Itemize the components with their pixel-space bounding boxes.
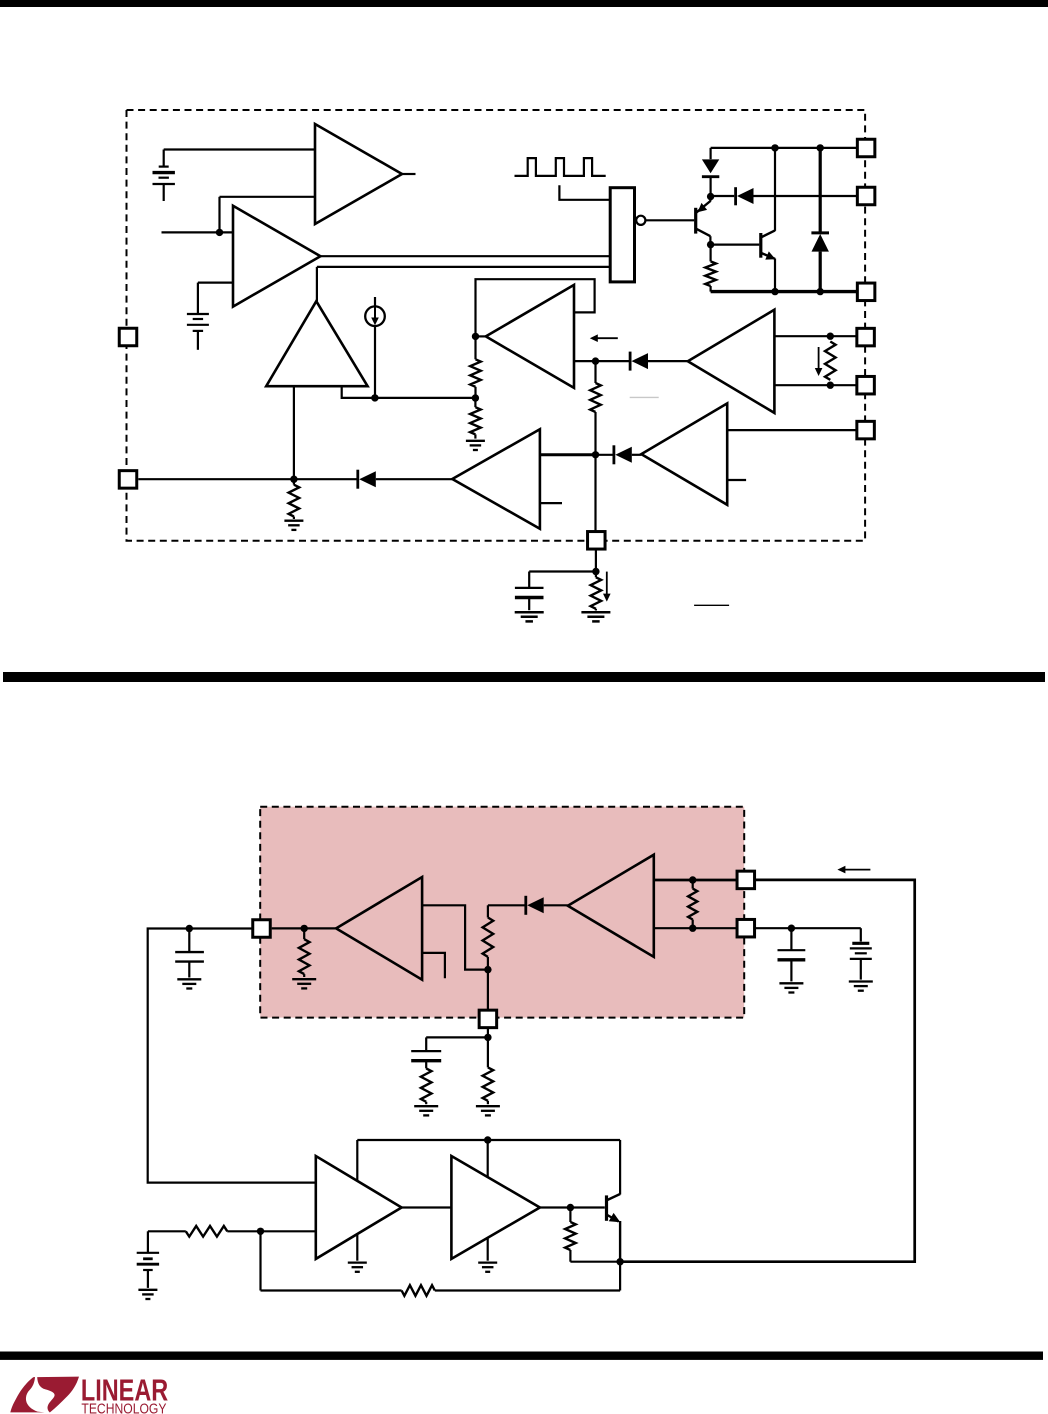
node C2 junction bbox=[186, 925, 193, 932]
ground under R12 bbox=[476, 1106, 500, 1115]
node bottom rail D3 bbox=[817, 288, 824, 295]
diode D6 bbox=[358, 470, 376, 489]
node feedback junction bbox=[257, 1228, 264, 1235]
wire output loop bold bbox=[620, 880, 915, 1262]
wire P13 down bbox=[487, 1028, 489, 1037]
battery B2 bbox=[187, 314, 209, 350]
wire left column bbox=[148, 929, 316, 1183]
resistor R4 bbox=[825, 342, 836, 380]
battery B4 bbox=[850, 928, 872, 979]
comparator A6 bbox=[486, 285, 574, 388]
wire A8 step input glyph bbox=[422, 953, 445, 978]
logo text TECHNOLOGY bbox=[81, 1402, 166, 1414]
transistor Q1 PNP bbox=[696, 201, 711, 245]
wire feedback down bbox=[259, 1231, 261, 1290]
IC boundary dashed box bbox=[127, 110, 866, 541]
node Q1 collector junction bbox=[707, 241, 714, 248]
wire A9 +input bbox=[654, 879, 737, 882]
battery B1 bbox=[153, 167, 175, 201]
wire A2 -input bbox=[198, 283, 233, 314]
ground A10 bbox=[348, 1263, 367, 1272]
wire feedback rail bbox=[261, 1262, 621, 1291]
pin square P11 right bbox=[737, 871, 755, 889]
wire A3 tap step bbox=[342, 386, 476, 398]
resistor R6 bbox=[289, 479, 300, 519]
node top rail Q2 bbox=[771, 144, 778, 151]
wire D7 to A9 bbox=[544, 904, 568, 906]
resistor R13 bbox=[186, 1226, 228, 1237]
comparator A8 bbox=[336, 877, 422, 980]
node bottom rail Q2 bbox=[771, 288, 778, 295]
node A8 input bbox=[301, 925, 308, 932]
pin square P10 left bbox=[253, 920, 271, 938]
wire A1 output bbox=[402, 173, 416, 175]
resistor R3 bbox=[470, 398, 481, 439]
op-amp A10 bbox=[316, 1156, 402, 1259]
wire A4 input bold bbox=[540, 453, 596, 456]
page top black bar bbox=[0, 0, 1048, 7]
resistor R12 bbox=[483, 1037, 494, 1104]
resistor R8 bbox=[299, 928, 310, 977]
node D4 junction bbox=[592, 357, 599, 364]
arrow annotation ISET bbox=[603, 572, 611, 602]
node tap junction bbox=[371, 394, 378, 401]
node osc top bbox=[484, 1136, 491, 1143]
wire R13 to A10 bbox=[227, 1230, 315, 1232]
node Q3 emitter bbox=[616, 1258, 623, 1265]
arrow annotation sense bbox=[815, 347, 823, 376]
resistor R9 bbox=[483, 905, 494, 969]
logo text LINEAR bbox=[81, 1372, 168, 1407]
pin square P7 right bbox=[857, 376, 875, 394]
diode D2 bbox=[736, 187, 754, 205]
op-amp A3 gm stage bbox=[266, 301, 367, 386]
capacitor C3 bbox=[778, 928, 806, 981]
transistor Q3 NPN bbox=[607, 1194, 621, 1262]
resistor R14 bbox=[402, 1285, 435, 1296]
capacitor C2 bbox=[175, 929, 204, 978]
node A7 +input bbox=[827, 333, 834, 340]
wire Q1 emitter up bbox=[709, 197, 711, 202]
resistor R1 bbox=[705, 245, 716, 292]
wire to C1 bbox=[529, 572, 596, 588]
node A9 +input bbox=[689, 876, 696, 883]
op-amp A2 error amp bbox=[233, 206, 320, 307]
wire Q2 collector up bbox=[774, 148, 776, 231]
pin square P4 right bbox=[857, 187, 875, 205]
oscillator pulse waveform bbox=[515, 158, 606, 176]
wire P12 row bbox=[755, 927, 861, 929]
wire R9 to D7 bbox=[488, 904, 526, 906]
page bottom black bar bbox=[0, 1352, 1043, 1360]
top rail bbox=[711, 147, 857, 149]
ground under R11 bbox=[414, 1106, 438, 1115]
wire A6 hysteresis loop bbox=[476, 279, 595, 336]
capacitor C4 bbox=[411, 1051, 441, 1068]
wire osc to U1 bbox=[559, 185, 610, 200]
ground under R6 bbox=[284, 521, 303, 530]
wire PB down bbox=[487, 970, 489, 1010]
ground A11 bbox=[478, 1263, 497, 1272]
wire A10 gnd stub bbox=[356, 1234, 358, 1261]
node A6 output bbox=[472, 333, 479, 340]
arrow annotation feedback bbox=[837, 866, 870, 874]
Linear Technology logo mark bbox=[10, 1377, 79, 1413]
svg-text:TECHNOLOGY: TECHNOLOGY bbox=[81, 1402, 166, 1414]
wire center rail bbox=[594, 361, 596, 531]
ground under B4 bbox=[849, 982, 873, 991]
node A8 fb junction bbox=[484, 966, 491, 973]
shaded application box bbox=[260, 807, 744, 1018]
ground under B3 bbox=[138, 1290, 157, 1299]
wire P10 to corner bbox=[189, 927, 252, 929]
node R2/R3 tap bbox=[472, 394, 479, 401]
wire U1 to Q1 base bbox=[646, 219, 695, 221]
resistor R11 bbox=[421, 1068, 432, 1104]
ground under R8 bbox=[292, 979, 316, 988]
diode D5 bbox=[614, 445, 632, 464]
ground under C1 bbox=[515, 612, 544, 621]
wire A3 base to node bbox=[293, 386, 295, 479]
resistor R5 bbox=[590, 383, 601, 412]
U1 output inverter bubble bbox=[636, 216, 645, 225]
resistor R15 bbox=[565, 1208, 576, 1262]
pin square P2 left bbox=[119, 471, 137, 489]
resistor R7 bbox=[591, 572, 602, 611]
current source I1 bbox=[365, 297, 385, 398]
bottom rail bold bbox=[711, 290, 857, 293]
node ISET junction bbox=[290, 476, 297, 483]
black overline label bbox=[694, 604, 729, 606]
capacitor C1 bbox=[515, 588, 544, 610]
pin square P13 bottom bbox=[479, 1010, 497, 1028]
pin square P1 left bbox=[119, 328, 137, 346]
wire A11 gnd stub bbox=[487, 1238, 489, 1261]
wire D2 anode bbox=[711, 195, 735, 197]
node top rail D3 bbox=[817, 144, 824, 151]
wire A8 input row bbox=[272, 927, 336, 929]
pin square P5 right bbox=[857, 283, 875, 301]
comparator A9 bbox=[568, 855, 654, 957]
wire A11 out to Q3 bbox=[540, 1206, 605, 1208]
wire A6 input from D4 bbox=[574, 360, 596, 362]
node timing2 junction bbox=[484, 1034, 491, 1041]
wire A9 -input bbox=[654, 927, 737, 929]
wire D6 to A4 bbox=[376, 478, 453, 480]
pin square P8 right bbox=[857, 421, 875, 439]
comparator A7 bbox=[688, 310, 775, 413]
wire A6 output stub bbox=[476, 335, 486, 337]
wire A8 feedback bbox=[422, 905, 488, 969]
wire osc top rail bbox=[357, 1139, 620, 1141]
battery B3 bbox=[137, 1231, 159, 1288]
diode D3 bold bbox=[811, 148, 829, 292]
wire P9 down bbox=[595, 550, 597, 572]
node C3 junction bbox=[788, 925, 795, 932]
node Q1 emitter junction bbox=[707, 193, 714, 200]
ground under R7 bbox=[581, 612, 610, 621]
resistor R2 bbox=[470, 336, 481, 398]
pin square P12 right bbox=[737, 919, 755, 937]
wire A2 +input bbox=[162, 231, 234, 233]
wire A10 out to A11 bbox=[402, 1206, 452, 1208]
wire A5 -input stub bbox=[727, 479, 746, 481]
wire B3 to R13 bbox=[148, 1230, 186, 1232]
wire A4 -input stub bbox=[540, 502, 562, 504]
wire A7 +input bbox=[774, 335, 856, 337]
arrow annotation current bbox=[590, 334, 618, 342]
node A1/A2 junction bbox=[216, 229, 223, 236]
node center rail A4 bbox=[592, 451, 599, 458]
wire Q2 emitter down bbox=[774, 259, 776, 292]
resistor R10 bbox=[688, 880, 697, 928]
wire A5 +input bbox=[727, 429, 856, 431]
wire D5 wiring bbox=[596, 454, 642, 456]
wire ISET node bbox=[138, 478, 357, 480]
wire A1 -input bbox=[220, 197, 316, 233]
wire top rail to A11 bbox=[487, 1140, 489, 1178]
wire A2 output upper bbox=[320, 255, 610, 257]
comparator A4 bbox=[452, 429, 540, 529]
node timing junction bbox=[592, 568, 599, 575]
wire A7 -input bbox=[774, 384, 856, 386]
node Q3 base drive bbox=[567, 1204, 574, 1211]
comparator A5 bbox=[641, 403, 727, 504]
gray overline label bbox=[630, 396, 659, 398]
wire A1 +input bbox=[164, 150, 315, 167]
pin square P9 bottom bbox=[588, 532, 606, 550]
wire D4 wiring bbox=[596, 360, 688, 362]
wire A2 output lower bbox=[317, 267, 611, 301]
wire to C4 bbox=[426, 1037, 488, 1051]
node A7 -input bbox=[827, 382, 834, 389]
diode D4 bbox=[630, 352, 648, 371]
driver block U1 bbox=[610, 188, 634, 282]
wire top rail to A10 bbox=[356, 1140, 358, 1182]
op-amp A11 bbox=[451, 1156, 540, 1259]
wire Q3 collector bbox=[619, 1140, 621, 1195]
wire Q1-Q2 base link bbox=[710, 244, 759, 246]
transistor Q2 NPN bbox=[761, 230, 776, 259]
diode D7 bbox=[526, 896, 544, 915]
ground under C2 bbox=[177, 979, 201, 988]
section divider bar bbox=[3, 672, 1045, 682]
op-amp A1 bbox=[315, 124, 402, 224]
pin square P3 top-right bbox=[857, 139, 875, 157]
ground under R3 bbox=[466, 441, 485, 450]
wire R15 to emitter bbox=[570, 1261, 620, 1263]
ground under C3 bbox=[779, 983, 803, 992]
wire D2 to VBOOST pin bbox=[754, 195, 857, 197]
pin square P6 right bbox=[857, 328, 875, 346]
node A9 -input bbox=[689, 925, 696, 932]
diode D1 bbox=[702, 148, 719, 197]
